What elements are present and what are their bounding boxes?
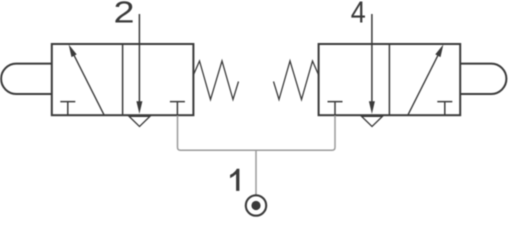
valve V2 return spring bbox=[274, 61, 319, 100]
port 2 line bbox=[138, 14, 140, 103]
valve V1 flow path arrow 1 to 2 bbox=[74, 55, 104, 114]
valve V2 position divider bbox=[388, 44, 390, 115]
wire from valve V2 port 1 to manifold bbox=[259, 116, 335, 151]
port 2 flow arrowhead (2 to 3 exhaust path) bbox=[136, 101, 142, 114]
valve V1 pushbutton actuator bbox=[1, 64, 52, 94]
wire junction to air supply bbox=[253, 150, 259, 195]
valve V2 exhaust 3 triangle bbox=[362, 116, 383, 126]
air supply source dot bbox=[251, 201, 260, 210]
valve V1 flow arrowhead bbox=[69, 44, 77, 57]
valve V1 exhaust 3 triangle bbox=[129, 116, 150, 126]
valve V1 body bbox=[52, 44, 194, 115]
valve V2 blocked exhaust port position b bbox=[437, 102, 452, 115]
valve V2 blocked port 1 position a bbox=[328, 102, 343, 115]
svg-text:4: 4 bbox=[351, 0, 366, 30]
valve V2 body bbox=[319, 44, 461, 115]
valve V1 blocked port 1 position b bbox=[170, 102, 185, 115]
svg-text:2: 2 bbox=[114, 0, 135, 30]
valve V1 position divider bbox=[122, 44, 124, 115]
valve V1 return spring bbox=[193, 61, 238, 100]
port 4 flow arrowhead (4 to 3 exhaust path) bbox=[369, 101, 375, 114]
port 1 label bbox=[230, 169, 239, 191]
valve V2 flow path arrow 1 to 4 bbox=[408, 55, 438, 114]
wire from valve V1 port 1 to manifold bbox=[178, 116, 254, 151]
valve V2 flow arrowhead bbox=[435, 44, 443, 57]
valve V1 blocked exhaust port position a bbox=[60, 102, 75, 115]
air supply source circle bbox=[246, 195, 266, 215]
port 4 line bbox=[371, 14, 373, 103]
valve V2 pushbutton actuator bbox=[460, 64, 506, 94]
